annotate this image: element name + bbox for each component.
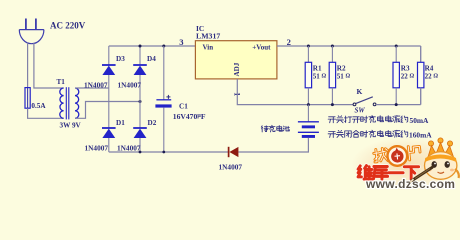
svg-text:R2: R2 — [337, 64, 346, 72]
diode D2 — [133, 128, 147, 138]
AC plug P1 — [19, 19, 44, 44]
junction dot D4 branch — [139, 45, 142, 48]
svg-text:SW: SW — [355, 107, 366, 115]
svg-text:1N4007: 1N4007 — [219, 163, 243, 172]
note: switch closed charge current 160mA — [328, 130, 432, 139]
diode D3 — [102, 65, 116, 75]
svg-text:R1: R1 — [313, 64, 322, 72]
label battery (dai chong dian chi) — [261, 126, 268, 132]
op-amp regulator U1 LM317 body — [195, 41, 277, 79]
watermark zhao-xin-pian outlined text — [373, 145, 420, 164]
watermark glow — [0, 0, 1, 1]
wire R4 bottom corner — [420, 88, 422, 105]
wire fuse to transformer primary — [28, 108, 64, 118]
wire ADJ pin down — [237, 79, 353, 105]
junction dot R3 top — [395, 45, 398, 48]
note: switch open charge current 50mA — [328, 116, 429, 126]
svg-text:+Vout: +Vout — [252, 44, 271, 52]
wire battery bottom lead — [238, 138, 308, 152]
wire output rail from +Vout — [277, 45, 421, 47]
svg-text:3: 3 — [179, 37, 183, 47]
svg-text:LM317: LM317 — [196, 31, 220, 40]
fuse F1 0.5A — [25, 88, 30, 109]
wire rail corner into R4 — [420, 46, 422, 62]
svg-text:1N4007: 1N4007 — [85, 144, 109, 153]
svg-text:C1: C1 — [179, 102, 188, 110]
wire C1 top lead — [163, 46, 165, 100]
junction dot R3 bottom — [395, 103, 398, 106]
svg-text:D1: D1 — [116, 119, 125, 127]
svg-text:D3: D3 — [116, 55, 125, 63]
svg-text:50mA: 50mA — [410, 116, 430, 125]
svg-text:51 Ω: 51 Ω — [313, 73, 327, 81]
svg-text:16V470µF: 16V470µF — [173, 112, 206, 121]
junction dot R2 top — [331, 45, 334, 48]
svg-text:51 Ω: 51 Ω — [337, 73, 351, 81]
svg-text:22 Ω: 22 Ω — [401, 73, 415, 81]
watermark weiku-yixia red text — [358, 166, 419, 180]
diode D5 1N4007 series — [229, 147, 239, 157]
junction dot C1 bottom — [162, 151, 165, 154]
svg-text:D2: D2 — [148, 119, 157, 127]
junction dot C1 branch — [162, 45, 165, 48]
svg-text:T1: T1 — [57, 78, 66, 86]
wire secondary bottom to bridge node B — [75, 102, 140, 119]
svg-text:22 Ω: 22 Ω — [425, 73, 439, 81]
svg-text:ADJ: ADJ — [233, 62, 241, 76]
diode D4 — [133, 65, 147, 75]
capacitor C1 — [155, 95, 171, 108]
junction dot R1 top — [307, 45, 310, 48]
svg-text:1N4007: 1N4007 — [84, 80, 108, 89]
svg-text:3W 9V: 3W 9V — [60, 121, 82, 129]
diode D1 — [102, 128, 116, 138]
wire switch to R3 R4 bottoms — [376, 104, 421, 106]
junction node B — [139, 100, 142, 103]
wire bridge bottom rail — [109, 151, 229, 153]
svg-text:1N4007: 1N4007 — [118, 80, 142, 89]
junction dot R2 bottom — [331, 103, 334, 106]
wire C1 bottom lead — [163, 108, 165, 152]
wire input rail to Vin — [109, 45, 196, 47]
svg-text:R4: R4 — [425, 64, 434, 72]
svg-text:AC 220V: AC 220V — [50, 20, 86, 30]
resistor R4 22 — [418, 46, 424, 105]
watermark badge circle — [387, 145, 409, 167]
wire battery top lead — [307, 105, 309, 122]
svg-text:D4: D4 — [147, 55, 156, 63]
wire bridge column right — [139, 46, 141, 152]
battery BT1 — [298, 122, 319, 138]
watermark mascot — [410, 138, 459, 183]
svg-text:0.5A: 0.5A — [31, 102, 46, 110]
resistor R2 51 — [329, 46, 335, 105]
svg-text:2: 2 — [287, 37, 291, 47]
svg-text:Vin: Vin — [203, 44, 214, 52]
transformer T1 — [60, 87, 79, 119]
switch K — [353, 97, 376, 106]
resistor R1 51 — [305, 46, 311, 105]
junction dot battery top — [307, 103, 310, 106]
svg-text:K: K — [357, 87, 363, 96]
junction dot D2 bottom — [139, 151, 142, 154]
wire secondary top to bridge node A — [75, 87, 109, 89]
wire plug cords — [28, 43, 64, 88]
svg-text:R3: R3 — [401, 64, 410, 72]
resistor R3 22 — [393, 46, 399, 105]
svg-text:1N4007: 1N4007 — [117, 144, 141, 153]
wire bridge column left — [108, 46, 110, 152]
